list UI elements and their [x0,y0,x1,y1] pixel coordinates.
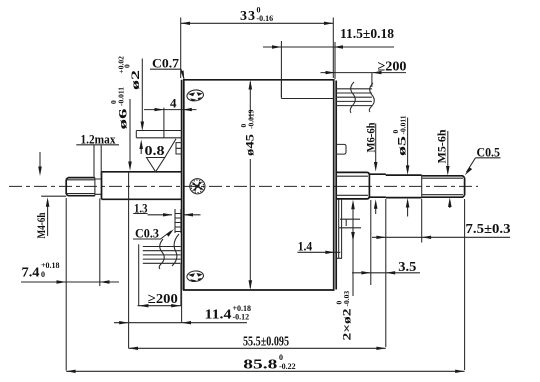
lead wires bottom left [143,234,181,269]
dimension 11.5±0.18 [263,27,394,97]
lead wires top right [336,82,374,113]
label ø2 +0.02/0 [117,56,145,154]
svg-text:3.5: 3.5 [398,260,416,275]
svg-text:1.3: 1.3 [134,201,148,216]
svg-text:C0.7: C0.7 [152,56,180,71]
svg-text:-0.011: -0.011 [399,115,408,134]
dimension 7.5±0.3 [372,199,511,347]
svg-text:-0.16: -0.16 [257,14,274,23]
chamfer label C0.7 [150,56,184,80]
dimension 1.2max [76,132,119,177]
label M6-6h [364,122,378,214]
svg-text:C0.5: C0.5 [477,145,501,160]
svg-text:≥200: ≥200 [378,60,407,75]
lead wire sleeve (ladder) front bottom [175,209,181,233]
right collar 3.5 [369,174,385,197]
svg-text:ø5: ø5 [395,136,409,156]
svg-text:+0.18: +0.18 [41,261,60,270]
svg-text:1.4: 1.4 [298,239,313,254]
svg-text:0: 0 [123,64,132,68]
body rear housing step [281,80,333,99]
svg-text:M4-6h: M4-6h [34,212,48,238]
boss groove / 11.4 datum line [128,172,130,348]
svg-text:M6-6h: M6-6h [364,122,378,152]
svg-text:1.2max: 1.2max [81,132,116,147]
svg-text:-0.011: -0.011 [117,87,126,106]
svg-text:-0.019: -0.019 [247,109,256,129]
right M6 boss [336,172,369,199]
svg-text:0: 0 [41,270,45,279]
dimension ≥200 top [321,60,407,88]
label M5-6h [435,129,452,208]
right M5 threaded end [422,176,465,197]
screw top on front face [186,89,204,102]
left shaft M4 threaded section [66,178,95,196]
left shaft undercut groove 1.2 [95,178,102,196]
centerline [9,185,478,187]
svg-text:-0.12: -0.12 [233,313,250,322]
svg-text:55.5±0.095: 55.5±0.095 [243,335,289,350]
right ø5 journal [386,174,422,197]
dimension 11.4 +0.18/-0.12 [114,264,251,324]
label ø45 0/-0.019 [239,80,257,290]
chamfer label C0.3 [133,226,174,241]
screw centre phillips head [190,179,205,194]
dimension 1.4 [298,199,342,258]
svg-text:85.8: 85.8 [243,358,277,373]
svg-text:7.4: 7.4 [22,266,40,281]
svg-text:2×ø2: 2×ø2 [340,309,354,341]
dimension 85.8 0/-0.22 [66,199,464,373]
chamfer label C0.5 [465,145,501,176]
label 2×ø2 0/-0.03 [335,200,355,341]
svg-text:ø6: ø6 [116,109,130,130]
svg-text:11.4: 11.4 [205,308,232,323]
dimension 3.5 [352,200,420,285]
svg-text:33: 33 [240,9,255,24]
label ø5 0/-0.011 [391,115,409,216]
svg-text:C0.3: C0.3 [135,226,159,241]
rear ø2 hole hidden lines [339,219,361,228]
svg-text:4: 4 [170,96,177,111]
surface roughness 0.8 [145,139,177,172]
svg-text:7.5±0.3: 7.5±0.3 [466,222,511,237]
front flange tab E [176,143,182,154]
svg-text:11.5±0.18: 11.5±0.18 [340,27,394,42]
motor body ø45 outline [182,80,337,290]
label M4-6h [34,152,66,239]
svg-text:-0.03: -0.03 [342,291,351,307]
svg-text:ø2: ø2 [128,70,142,90]
svg-text:0: 0 [279,353,283,362]
dimension 1.3 (sleeve width) [133,201,200,217]
screw bottom on front face [186,270,204,282]
svg-text:ø45: ø45 [243,134,257,156]
svg-text:-0.22: -0.22 [279,362,296,371]
dimension 4 (pin length) [144,96,197,138]
dimension 55.5±0.095 [129,335,386,351]
svg-text:M5-6h: M5-6h [435,129,449,163]
rear flange tab D [336,144,346,154]
ø6 output boss [102,172,182,200]
svg-text:≥200: ≥200 [148,292,178,307]
dimension ≥200 bottom [138,244,183,307]
dimension 7.4 +0.18/0 [21,198,119,371]
svg-text:0.8: 0.8 [145,144,165,159]
ø2 locating pin [136,131,182,138]
label ø6 0/-0.011 [109,87,132,171]
dimension 33 0/-0.16 top [181,6,334,79]
